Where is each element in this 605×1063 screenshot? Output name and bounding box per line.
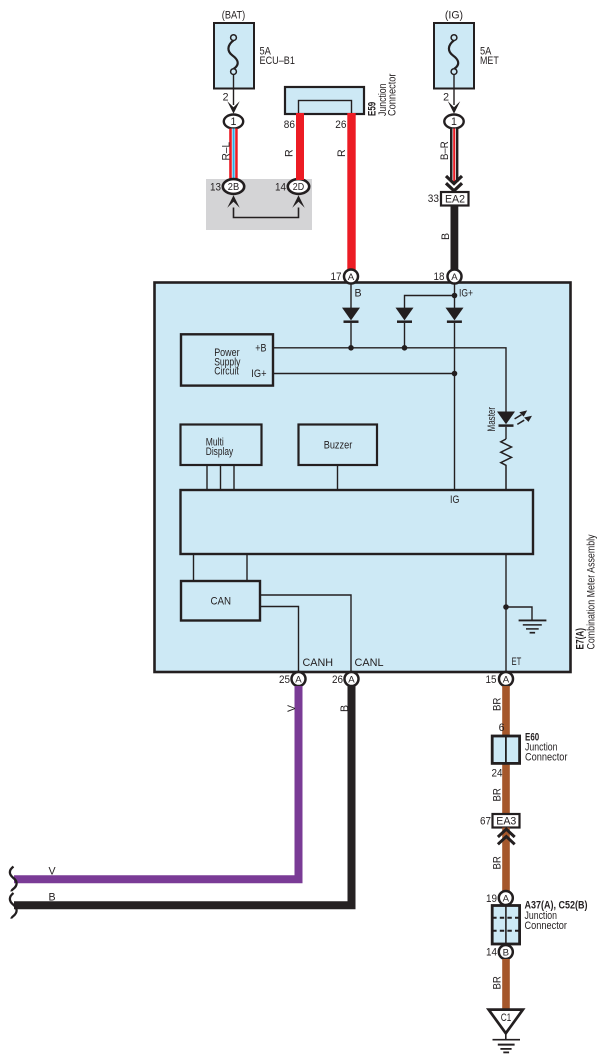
svg-text:B: B <box>440 233 452 240</box>
svg-text:ECU–B1: ECU–B1 <box>260 55 295 67</box>
svg-text:EA3: EA3 <box>496 816 516 828</box>
svg-text:+B: +B <box>255 343 266 355</box>
svg-text:V: V <box>286 704 298 712</box>
ground point C1 <box>489 1010 523 1034</box>
wire B-R <box>439 129 458 185</box>
shield connector EA3 pin 67 <box>480 814 520 828</box>
svg-text:B: B <box>339 705 351 712</box>
svg-text:(IG): (IG) <box>445 10 463 22</box>
wire ET column <box>505 554 507 672</box>
wire B (CANL) <box>14 686 352 905</box>
chevron arrow into EA2 <box>446 176 462 191</box>
junction connector E59 <box>285 73 398 116</box>
combination meter assembly box E7(A) <box>155 283 571 673</box>
svg-text:R: R <box>284 149 296 157</box>
break symbol B wire <box>10 893 17 919</box>
connector oval 2D pin 14 <box>275 179 309 194</box>
wire IG+ rail <box>273 373 455 375</box>
junction dot D1/+B <box>348 345 354 351</box>
svg-text:1: 1 <box>231 116 237 128</box>
diode D2 <box>396 308 414 348</box>
svg-text:Display: Display <box>206 446 234 458</box>
svg-text:33: 33 <box>428 193 439 205</box>
meter pin 17 <box>331 270 359 284</box>
svg-text:BR: BR <box>491 788 503 802</box>
wire R-L <box>220 129 237 181</box>
svg-text:6: 6 <box>499 722 505 734</box>
power supply circuit box <box>181 334 273 385</box>
svg-text:Combination Meter Assembly: Combination Meter Assembly <box>586 534 598 650</box>
svg-text:EA2: EA2 <box>445 194 465 206</box>
svg-text:BR: BR <box>491 856 503 870</box>
wire CAN to CANH pin 25 <box>260 607 299 673</box>
svg-text:86: 86 <box>284 119 295 131</box>
svg-text:V: V <box>49 866 57 878</box>
fuse MET (IG) <box>434 10 499 89</box>
gray instrument panel box <box>206 179 312 230</box>
svg-text:A: A <box>503 675 510 686</box>
svg-text:2D: 2D <box>293 182 304 193</box>
IG block <box>181 490 534 554</box>
svg-text:19: 19 <box>486 893 497 905</box>
svg-text:26: 26 <box>335 119 346 131</box>
svg-text:24: 24 <box>492 768 503 780</box>
svg-text:13: 13 <box>210 182 221 194</box>
wire CAN to CANL pin 26 <box>260 595 351 672</box>
connector circle A pin 19 <box>486 891 513 905</box>
wire fuse IG to connector 1 <box>443 75 454 106</box>
wire R from E59 pin 86 to 2D <box>284 113 305 180</box>
svg-text:Connector: Connector <box>525 752 568 764</box>
svg-text:14: 14 <box>486 947 497 959</box>
wire R from E59 pin 26 to meter pin 17 <box>336 113 356 270</box>
LED Master <box>486 407 532 439</box>
buzzer box <box>299 425 378 466</box>
CAN block <box>181 581 260 621</box>
svg-text:17: 17 <box>331 271 342 283</box>
svg-text:C1: C1 <box>501 1012 512 1024</box>
diode D1 <box>342 308 360 348</box>
svg-text:IG+: IG+ <box>251 368 266 380</box>
multi display box <box>181 425 262 466</box>
svg-text:25: 25 <box>279 674 290 686</box>
svg-text:CANL: CANL <box>355 657 384 669</box>
svg-text:67: 67 <box>480 816 491 828</box>
svg-text:(BAT): (BAT) <box>222 10 245 22</box>
break symbol V wire <box>10 867 17 892</box>
chevron arrow out of EA3 <box>498 829 515 844</box>
svg-text:26: 26 <box>332 674 343 686</box>
meter pin 18 <box>434 270 462 284</box>
diode D3 <box>446 308 464 490</box>
svg-text:IG+: IG+ <box>459 288 473 300</box>
svg-text:A: A <box>503 894 510 905</box>
svg-text:Connector: Connector <box>386 73 398 116</box>
wire +B rail <box>273 348 506 412</box>
svg-text:B: B <box>49 892 56 904</box>
wires IG block to CAN block <box>194 554 248 581</box>
svg-text:Connector: Connector <box>525 920 568 932</box>
svg-text:ET: ET <box>512 656 522 668</box>
wire V (CANH) <box>14 686 299 879</box>
svg-text:A: A <box>348 675 355 686</box>
internal ground symbol <box>506 607 546 633</box>
wire BR pin15 to EA3 <box>491 686 510 814</box>
junction connector A37(A), C52(B) <box>492 900 587 945</box>
svg-text:A: A <box>348 272 355 283</box>
svg-text:Master: Master <box>486 407 498 432</box>
svg-text:R–L: R–L <box>220 142 232 161</box>
resistor for LED <box>501 439 512 490</box>
junction dot D2/+B <box>402 345 408 351</box>
svg-text:1: 1 <box>451 116 457 128</box>
svg-text:CAN: CAN <box>211 596 232 608</box>
junction dot D3/IG+ <box>452 371 458 377</box>
svg-text:A: A <box>451 272 458 283</box>
svg-text:Circuit: Circuit <box>214 366 239 378</box>
svg-text:B: B <box>355 288 362 300</box>
wire B from EA2 to meter pin 18 <box>440 206 458 271</box>
svg-text:IG: IG <box>450 494 459 506</box>
arrow into connector 1 (BAT) <box>227 101 239 114</box>
connector oval 1 (BAT side) <box>224 115 243 129</box>
wire fuse BAT to connector 1 <box>223 75 234 106</box>
wire BR to ground C1 <box>491 959 510 1010</box>
fuse ECU-B1 (BAT) <box>214 10 295 89</box>
wire pin18 down <box>454 284 456 309</box>
wires multi display to IG block <box>207 465 234 490</box>
meter pin 25 <box>279 672 306 686</box>
svg-text:R: R <box>336 149 348 157</box>
svg-text:18: 18 <box>434 271 445 283</box>
svg-text:CANH: CANH <box>303 657 334 669</box>
svg-text:B: B <box>503 948 509 959</box>
meter pin 15 <box>486 672 514 686</box>
connector oval 2B pin 13 <box>210 179 244 194</box>
shield connector EA2 pin 33 <box>428 192 469 206</box>
svg-text:Buzzer: Buzzer <box>324 440 353 452</box>
wire linking 2B and 2D <box>234 208 299 218</box>
arrow into connector 1 (IG) <box>448 101 460 114</box>
connector circle B pin 14 <box>486 945 513 959</box>
earth ground symbol <box>493 1033 521 1052</box>
junction dot at IG+ branch <box>452 293 458 299</box>
svg-text:2B: 2B <box>228 182 240 193</box>
wire BR EA3 to A37 <box>491 828 510 892</box>
svg-text:MET: MET <box>480 55 499 67</box>
svg-text:B–R: B–R <box>439 141 451 160</box>
svg-text:14: 14 <box>275 182 286 194</box>
svg-text:A: A <box>295 675 302 686</box>
connector oval 1 (IG side) <box>444 115 463 129</box>
meter pin 26 <box>332 672 359 686</box>
junction connector E60 <box>492 722 568 780</box>
wire buzzer to IG block <box>337 465 339 490</box>
wire branch to diode D2 <box>405 296 455 309</box>
svg-text:BR: BR <box>491 976 503 990</box>
wire pin17 to diode D1 <box>350 284 352 309</box>
arrow out of 2D <box>292 195 304 208</box>
arrow out of 2B <box>227 195 239 208</box>
svg-text:BR: BR <box>491 697 503 711</box>
svg-text:15: 15 <box>486 674 497 686</box>
junction dot ET/ground <box>503 604 509 610</box>
